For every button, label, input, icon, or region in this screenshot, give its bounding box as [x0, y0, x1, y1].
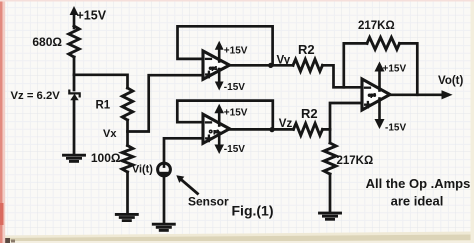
svg-text:Vz: Vz: [279, 118, 293, 130]
op3 feedback wire with 217KΩ: [344, 43, 367, 87]
svg-text:Vx: Vx: [103, 128, 117, 140]
svg-text:217KΩ: 217KΩ: [358, 20, 395, 32]
resistor R1: [122, 88, 132, 120]
sensor pointer arrow: [176, 175, 197, 193]
svg-text:op1: op1: [209, 65, 218, 70]
resistor 100Ω: [122, 146, 133, 173]
svg-text:-15V: -15V: [385, 123, 406, 134]
ground (100Ω branch): [116, 214, 137, 220]
svg-text:-15V: -15V: [224, 144, 245, 155]
zener diode D1: [69, 91, 79, 101]
ground (zener branch): [64, 155, 85, 161]
op1 +15V arrow: [215, 41, 224, 62]
ground (217KΩ branch): [320, 213, 341, 219]
wire sensor to ground: [163, 176, 166, 224]
svg-text:Vz = 6.2V: Vz = 6.2V: [11, 90, 61, 102]
svg-text:are ideal: are ideal: [391, 194, 444, 209]
svg-text:+15V: +15V: [224, 46, 248, 57]
node Vy junction dot: [268, 63, 273, 68]
svg-text:217KΩ: 217KΩ: [337, 155, 374, 167]
wire zener to ground: [73, 100, 76, 155]
svg-text:All the Op .Amps: All the Op .Amps: [366, 176, 471, 191]
page bottom edge strip: [0, 232, 474, 243]
sensor source Vi(t) circle: [158, 163, 171, 176]
op3 -15V arrow: [375, 99, 385, 130]
resistor R2 (upper): [293, 59, 323, 71]
svg-text:R1: R1: [96, 100, 111, 112]
wire node Vx to op1 noninverting input: [128, 75, 204, 131]
wire R2 to op3 inverting input: [323, 65, 363, 87]
wire 100Ω to ground: [126, 172, 129, 214]
page left edge strip: [0, 0, 3, 243]
svg-text:+15V: +15V: [77, 9, 107, 23]
wire R1 to 100Ω through node Vx: [126, 120, 129, 146]
wire op1 output node Vy: [230, 64, 294, 67]
node Vz wire to R1: [74, 75, 128, 88]
feedback wire to output: [400, 43, 418, 94]
svg-text:Sensor: Sensor: [188, 195, 229, 209]
op-amp op2: [203, 114, 230, 143]
wire op2 output node Vz: [230, 128, 294, 131]
wire 217KΩ to ground: [329, 174, 332, 213]
resistor 680Ω: [69, 26, 79, 57]
svg-text:680Ω: 680Ω: [32, 35, 62, 49]
svg-text:R2: R2: [298, 42, 315, 57]
resistor 217KΩ (to ground): [324, 143, 336, 174]
svg-text:100Ω: 100Ω: [91, 151, 121, 165]
svg-text:Vo(t): Vo(t): [438, 75, 464, 87]
op2 feedback wire (output to inverting input): [177, 101, 272, 130]
svg-text:Vy: Vy: [277, 55, 291, 67]
node Vz junction dot: [269, 127, 274, 132]
+15V supply arrow (left rail): [70, 6, 79, 28]
wire R2 to op3 noninverting input: [323, 103, 363, 129]
svg-text:+15V: +15V: [383, 64, 407, 75]
op-amp op1: [203, 51, 230, 79]
svg-text:R2: R2: [301, 106, 318, 121]
op1 -15V arrow: [215, 69, 224, 91]
op2 -15V arrow: [214, 133, 224, 155]
wire 680Ω to zener node: [73, 57, 76, 90]
resistor 217KΩ (feedback): [367, 37, 400, 49]
resistor R2 (lower): [293, 123, 322, 135]
svg-text:O p2: O p2: [209, 129, 219, 134]
op1 feedback wire (output to inverting input): [178, 26, 273, 65]
ground (sensor branch): [153, 224, 174, 230]
op2 +15V arrow: [214, 104, 224, 126]
svg-text:Vi(t): Vi(t): [132, 164, 153, 176]
svg-text:-15V: -15V: [224, 82, 245, 93]
output wire Vo(t) with arrow: [390, 90, 453, 99]
svg-text:+15V: +15V: [224, 108, 248, 119]
op-amp op3: [362, 79, 390, 110]
wire sensor to op2 noninverting input: [164, 138, 203, 163]
wire junction down to 217KΩ: [329, 129, 332, 143]
page right edge strip: [471, 0, 474, 243]
op3 +15V arrow: [375, 62, 385, 91]
svg-text:Fig.(1): Fig.(1): [232, 203, 274, 219]
svg-text:op3: op3: [368, 92, 376, 97]
